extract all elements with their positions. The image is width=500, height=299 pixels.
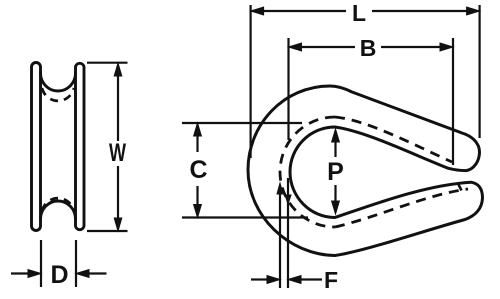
- B dimension line left: [301, 46, 355, 48]
- P bottom arrowhead: [332, 201, 340, 214]
- svg-text:W: W: [109, 139, 126, 167]
- dashed groove centerline: [280, 117, 468, 227]
- D dimension: [11, 240, 107, 287]
- D right extension line: [75, 240, 77, 287]
- L left extension line: [250, 5, 252, 158]
- F left extension arrow up: [277, 183, 283, 194]
- dashed left arc: [280, 117, 335, 227]
- W top extension line: [87, 62, 128, 64]
- L left arrowhead: [251, 7, 264, 15]
- dashed top run: [335, 117, 452, 162]
- C bottom extension line: [182, 216, 308, 218]
- B left arrowhead: [289, 43, 302, 51]
- C bottom arrowhead: [194, 205, 202, 218]
- L dimension: [251, 5, 480, 158]
- C top extension line: [182, 122, 302, 124]
- right flange bar: [76, 63, 85, 229]
- W dimension line lower: [117, 166, 119, 229]
- B dimension: [289, 38, 454, 165]
- P top arrowhead: [332, 129, 340, 142]
- L dimension line left: [263, 10, 346, 12]
- left flange bar: [32, 63, 41, 231]
- D right arrow line: [88, 272, 107, 274]
- P dimension: [332, 129, 340, 214]
- P dimension line upper: [334, 131, 336, 157]
- F right small arrow blob: [285, 195, 291, 204]
- W bottom extension line: [87, 230, 128, 232]
- svg-text:B: B: [360, 35, 377, 61]
- L right arrowhead: [467, 7, 480, 15]
- B right extension line: [452, 38, 454, 165]
- F right arrowhead: [288, 276, 301, 284]
- svg-text:F: F: [324, 267, 338, 293]
- C top arrowhead: [194, 123, 202, 136]
- B left extension line: [287, 38, 289, 140]
- W top arrow: [114, 63, 122, 76]
- C dimension: [182, 123, 308, 218]
- D left extension line: [40, 240, 42, 287]
- D left arrowhead: [28, 270, 41, 278]
- C dimension line upper: [196, 125, 198, 152]
- svg-text:L: L: [352, 0, 366, 26]
- svg-text:D: D: [50, 261, 68, 289]
- dashed bottom run: [335, 189, 468, 227]
- top saddle arc solid: [41, 73, 76, 91]
- L dimension line right: [372, 10, 467, 12]
- W bottom arrow: [114, 218, 122, 231]
- B right arrowhead: [440, 43, 453, 51]
- D right arrowhead: [76, 270, 89, 278]
- bottom hidden dashed arc: [42, 198, 74, 211]
- right view: thimble front outline: [248, 86, 483, 256]
- F dimension: [251, 178, 322, 288]
- svg-text:C: C: [189, 156, 207, 184]
- svg-text:P: P: [327, 158, 344, 186]
- B dimension line right: [381, 46, 441, 48]
- bottom saddle arc solid: [41, 201, 76, 219]
- F right extension line: [287, 178, 289, 288]
- D left arrow line: [11, 272, 29, 274]
- F right arrow line: [301, 278, 322, 280]
- L right extension line: [479, 5, 481, 138]
- W dimension: [87, 63, 128, 231]
- small inner-edge tick on bottom lobe: [458, 184, 462, 191]
- P dimension line lower: [334, 185, 336, 212]
- C dimension line lower: [196, 186, 198, 215]
- F left arrowhead: [267, 276, 280, 284]
- F left arrow line: [251, 278, 267, 280]
- F left extension line: [279, 195, 281, 288]
- W dimension line upper: [117, 65, 119, 141]
- top hidden dashed arc: [42, 88, 74, 101]
